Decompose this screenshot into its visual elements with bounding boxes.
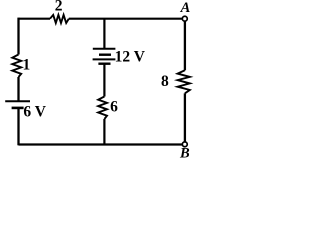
svg-text:A: A xyxy=(180,0,191,16)
wire: right lower vertical segment xyxy=(184,93,186,141)
svg-text:1: 1 xyxy=(23,56,31,73)
battery 6V: short plate xyxy=(12,107,24,110)
wire: middle bottom vertical segment xyxy=(103,119,105,144)
battery 12V: short plate 1 xyxy=(99,54,111,56)
resistor R=2 (top) xyxy=(50,15,69,23)
svg-text:2: 2 xyxy=(55,0,63,15)
wire: top-right horizontal segment to node A xyxy=(69,18,182,20)
svg-text:12 V: 12 V xyxy=(115,49,146,66)
wire: left lower vertical segment xyxy=(17,108,19,145)
battery 6V: long plate xyxy=(5,100,30,102)
battery 12V: long plate 1 xyxy=(93,48,116,50)
wire: middle upper vertical segment xyxy=(103,19,105,48)
wire: left middle vertical segment xyxy=(17,77,19,101)
wire: bottom horizontal segment xyxy=(19,143,183,145)
node B terminal circle xyxy=(182,142,187,147)
battery 12V: short plate 2 xyxy=(98,63,110,65)
wire: right upper vertical segment xyxy=(184,21,186,70)
node A terminal circle xyxy=(182,16,187,21)
wire: left upper vertical segment xyxy=(17,18,19,55)
resistor R=1 (left) xyxy=(12,55,21,78)
svg-text:B: B xyxy=(179,146,190,162)
svg-text:6: 6 xyxy=(110,98,118,115)
wire: middle lower vertical segment xyxy=(103,64,105,97)
wire: top-left horizontal segment xyxy=(19,18,51,20)
svg-text:6 V: 6 V xyxy=(23,103,46,120)
resistor R=8 (right) xyxy=(178,70,190,93)
resistor R=6 (middle) xyxy=(98,97,107,120)
battery 12V: long plate 2 xyxy=(93,58,116,60)
svg-text:8: 8 xyxy=(161,73,169,90)
